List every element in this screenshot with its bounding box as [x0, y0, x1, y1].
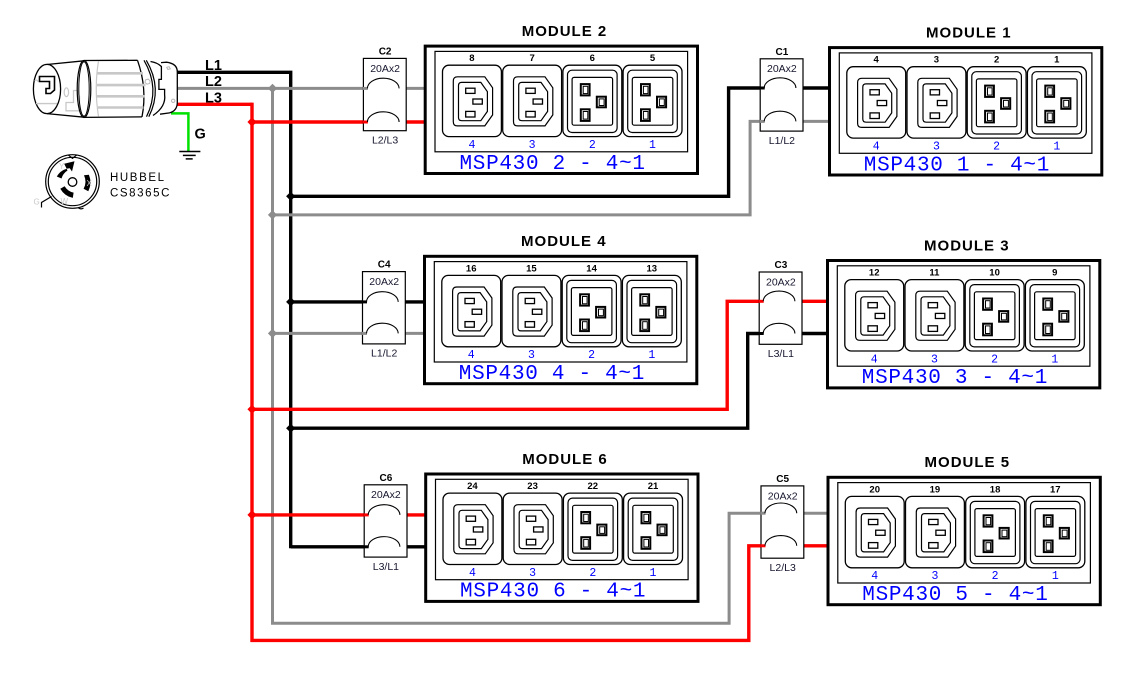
svg-text:C5: C5	[776, 474, 789, 485]
svg-text:20Ax2: 20Ax2	[767, 63, 797, 75]
junction L1 at C1 branch	[286, 192, 295, 201]
ground symbol	[179, 152, 200, 159]
svg-text:10: 10	[989, 268, 1000, 279]
wire L2 branch to breaker C1 (riser)	[273, 121, 831, 214]
wire G (green ground wire)	[171, 113, 188, 152]
module 3 outlet 9 (C19)	[1025, 268, 1084, 367]
module 1 enclosure	[830, 48, 1102, 175]
module 3 outlet 11 (C13)	[905, 268, 964, 367]
wire L1 branch to breaker C6	[291, 545, 426, 548]
module 6 outlet 21 (C19)	[624, 481, 683, 580]
module 6 outlet 24 (C13)	[443, 481, 502, 580]
module 6 outlet 22 (C19)	[563, 481, 622, 580]
svg-text:G: G	[195, 127, 206, 143]
svg-text:MSP430 4 - 4~1: MSP430 4 - 4~1	[459, 363, 645, 386]
junction L1 at C3 branch	[286, 424, 295, 433]
svg-text:MODULE 1: MODULE 1	[926, 25, 1012, 42]
module 2 outlet 8 (C13)	[443, 53, 502, 152]
module 3 outlet 12 (C13)	[845, 268, 904, 367]
module 1 outlet 4 (C13)	[847, 55, 906, 154]
svg-text:5: 5	[650, 53, 656, 64]
wire L3 branch to breaker C6	[252, 513, 426, 516]
svg-text:MSP430 1 - 4~1: MSP430 1 - 4~1	[864, 154, 1050, 177]
svg-text:L2/L3: L2/L3	[770, 562, 796, 574]
svg-text:2: 2	[589, 139, 596, 152]
svg-text:L1/L2: L1/L2	[769, 135, 795, 147]
junction L2 at bus top	[268, 84, 277, 93]
wire L1 branch to breaker C1 (riser)	[291, 88, 830, 196]
svg-text:20Ax2: 20Ax2	[369, 276, 399, 288]
svg-text:4: 4	[874, 55, 880, 66]
svg-text:20Ax2: 20Ax2	[371, 489, 401, 501]
svg-text:L1: L1	[205, 58, 222, 74]
wire L2 branch to breaker C4	[273, 332, 426, 335]
svg-text:3: 3	[934, 55, 939, 66]
circuit breaker C6 (L3/L1)	[364, 473, 407, 573]
module 2 outlet 6 (C19)	[563, 53, 622, 152]
wire L1 branch to breaker C3 (riser)	[291, 334, 828, 429]
wire L3 from plug to red bus corner	[174, 103, 252, 106]
svg-text:2: 2	[588, 349, 595, 362]
module 4 outlet 14 (C19)	[562, 263, 621, 362]
svg-text:1: 1	[649, 139, 656, 152]
module 5 outlet 18 (C19)	[966, 484, 1025, 583]
svg-text:1: 1	[1052, 570, 1059, 583]
module 3 outlet 10 (C19)	[965, 268, 1024, 367]
svg-text:20: 20	[869, 484, 880, 495]
svg-text:18: 18	[990, 484, 1001, 495]
svg-text:HUBBEL: HUBBEL	[110, 172, 166, 184]
svg-text:MODULE 3: MODULE 3	[924, 237, 1010, 254]
module 2 enclosure	[425, 46, 697, 173]
svg-text:3: 3	[933, 141, 940, 154]
module 5 outlet 17 (C19)	[1026, 484, 1085, 583]
svg-text:4: 4	[873, 141, 880, 154]
svg-text:16: 16	[466, 263, 477, 274]
svg-text:9: 9	[1052, 268, 1057, 279]
module 2 outlet 5 (C19)	[623, 53, 682, 152]
svg-text:13: 13	[647, 263, 658, 274]
svg-text:3: 3	[931, 353, 938, 366]
svg-text:2: 2	[994, 55, 999, 66]
svg-text:L3/L1: L3/L1	[373, 561, 399, 573]
junction L3 at C2 branch	[247, 117, 256, 126]
svg-text:12: 12	[869, 268, 880, 279]
svg-text:MODULE 4: MODULE 4	[521, 233, 607, 250]
wire L1 vertical bus	[289, 71, 292, 549]
svg-text:CS8365C: CS8365C	[110, 188, 171, 200]
svg-text:2: 2	[589, 567, 596, 580]
svg-text:MSP430 2 - 4~1: MSP430 2 - 4~1	[459, 153, 645, 176]
wire L2 vertical bus	[273, 88, 766, 623]
svg-text:11: 11	[929, 268, 940, 279]
svg-text:C2: C2	[379, 47, 392, 58]
label HUBBEL CS8365C	[110, 172, 171, 200]
svg-text:L3/L1: L3/L1	[768, 348, 794, 360]
wire L2 from plug through breaker C2 to module 2	[176, 87, 426, 90]
module 5 outlet 20 (C13)	[845, 484, 904, 583]
module 1 outlet 3 (C13)	[907, 55, 966, 154]
module 1 outlet 1 (C19)	[1027, 55, 1086, 154]
svg-text:8: 8	[469, 53, 474, 64]
svg-text:6: 6	[590, 53, 595, 64]
svg-text:Y: Y	[59, 162, 65, 171]
module 2 outlet 7 (C13)	[503, 53, 562, 152]
svg-text:L3: L3	[205, 90, 222, 106]
module 3 enclosure	[828, 261, 1100, 388]
module 4 outlet 15 (C13)	[502, 263, 561, 362]
svg-text:MODULE 5: MODULE 5	[925, 454, 1011, 471]
svg-text:17: 17	[1050, 484, 1061, 495]
module 1 outlet 2 (C19)	[967, 55, 1026, 154]
junction L1 at C4 branch	[286, 297, 295, 306]
svg-text:3: 3	[931, 570, 938, 583]
svg-text:MSP430 5 - 4~1: MSP430 5 - 4~1	[862, 584, 1048, 607]
circuit breaker C2 (L2/L3)	[363, 47, 406, 147]
svg-text:15: 15	[526, 263, 537, 274]
svg-text:24: 24	[467, 481, 478, 492]
module 5 enclosure	[828, 477, 1100, 604]
svg-text:X: X	[87, 179, 93, 188]
junction L3 at C6 branch	[247, 510, 256, 519]
module 4 outlet 13 (C19)	[622, 263, 681, 362]
svg-text:14: 14	[586, 263, 597, 274]
svg-text:4: 4	[468, 139, 475, 152]
svg-text:4: 4	[871, 570, 878, 583]
circuit breaker C3 (L3/L1)	[759, 260, 802, 360]
svg-text:4: 4	[468, 349, 475, 362]
svg-text:MODULE 2: MODULE 2	[522, 23, 608, 40]
svg-text:20Ax2: 20Ax2	[768, 490, 798, 502]
svg-text:L1/L2: L1/L2	[371, 348, 397, 360]
svg-text:22: 22	[588, 481, 599, 492]
svg-text:C6: C6	[380, 473, 393, 484]
svg-text:4: 4	[871, 353, 878, 366]
svg-text:20Ax2: 20Ax2	[766, 276, 796, 288]
wire L3 vertical bus	[252, 103, 766, 641]
svg-text:MSP430 6 - 4~1: MSP430 6 - 4~1	[460, 581, 646, 604]
svg-text:19: 19	[930, 484, 941, 495]
wire L1 branch to breaker C4	[291, 300, 426, 303]
wire L3 branch to breaker C3 (riser)	[252, 301, 828, 409]
svg-text:2: 2	[991, 353, 998, 366]
svg-text:20Ax2: 20Ax2	[370, 63, 400, 75]
svg-text:3: 3	[529, 139, 536, 152]
svg-text:1: 1	[1051, 353, 1058, 366]
wire L3 branch through breaker C2 to module 2	[252, 120, 426, 123]
svg-text:C4: C4	[378, 260, 391, 271]
svg-text:1: 1	[650, 567, 657, 580]
svg-text:1: 1	[1053, 141, 1060, 154]
svg-text:L2/L3: L2/L3	[372, 134, 398, 146]
module 5 outlet 19 (C13)	[906, 484, 965, 583]
plug HUBBEL CS8365C side view	[33, 60, 177, 117]
svg-text:G: G	[34, 198, 40, 207]
svg-text:1: 1	[1054, 55, 1060, 66]
junction L2 at C4 branch	[268, 329, 277, 338]
svg-text:2: 2	[992, 570, 999, 583]
junction L2 at C1 branch	[268, 210, 277, 219]
svg-text:7: 7	[529, 53, 534, 64]
svg-text:4: 4	[469, 567, 476, 580]
wire L2 branch to breaker C5 (stub to module 5)	[796, 512, 829, 515]
svg-text:C1: C1	[776, 47, 789, 58]
wire L3 stub from breaker C5 to module 5	[796, 544, 829, 547]
svg-text:2: 2	[993, 141, 1000, 154]
svg-text:C3: C3	[775, 260, 788, 271]
svg-text:3: 3	[529, 567, 536, 580]
circuit breaker C5 (L2/L3)	[761, 474, 804, 574]
junction L3 at C3 branch	[247, 405, 256, 414]
connector face HUBBEL CS8365C	[34, 155, 100, 209]
wire L1 from plug to black bus corner	[175, 71, 290, 74]
svg-text:3: 3	[528, 349, 535, 362]
circuit breaker C1 (L1/L2)	[760, 47, 803, 147]
module 6 outlet 23 (C13)	[503, 481, 562, 580]
svg-text:21: 21	[648, 481, 659, 492]
circuit breaker C4 (L1/L2)	[362, 260, 405, 360]
svg-text:L2: L2	[205, 74, 222, 90]
module 6 enclosure	[426, 474, 698, 601]
svg-text:MSP430 3 - 4~1: MSP430 3 - 4~1	[862, 367, 1048, 390]
module 4 enclosure	[425, 256, 697, 383]
svg-text:W: W	[61, 197, 69, 206]
svg-text:MODULE 6: MODULE 6	[522, 451, 608, 468]
svg-text:23: 23	[527, 481, 538, 492]
module 4 outlet 16 (C13)	[442, 263, 501, 362]
svg-text:1: 1	[648, 349, 655, 362]
